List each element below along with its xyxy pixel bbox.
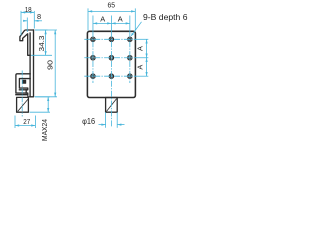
8 dim — [26, 18, 28, 33]
svg-text:MAX24: MAX24 — [40, 119, 49, 141]
centerline through clamp/boss — [21, 71, 23, 117]
right view cyan lines — [84, 8, 148, 127]
hook top — [20, 30, 34, 55]
boss front — [106, 98, 118, 113]
65 — [88, 10, 92, 12]
hole centerlines horizontal — [84, 38, 136, 40]
34.3 arrows — [45, 30, 47, 34]
plate front — [87, 31, 135, 97]
18 dim — [20, 11, 22, 36]
MAX24 arrows — [47, 97, 49, 101]
svg-text:34.3: 34.3 — [37, 36, 46, 52]
svg-text:27: 27 — [23, 117, 30, 126]
right A dims — [146, 39, 148, 76]
right A arrows — [146, 39, 148, 43]
svg-text:65: 65 — [108, 1, 116, 10]
left view dimensions (cyan) — [15, 11, 57, 128]
18 arrows — [21, 11, 25, 13]
phi16 dim — [105, 112, 107, 128]
svg-text:A: A — [100, 14, 105, 23]
leader arrow — [131, 33, 134, 36]
svg-text:8: 8 — [37, 12, 41, 21]
din clamp — [16, 74, 30, 95]
27 arrows — [15, 124, 19, 126]
leader 9-B — [131, 22, 141, 36]
left view dim texts — [23, 5, 54, 141]
holes — [91, 37, 132, 78]
27 dim — [14, 116, 16, 129]
right view arrows — [88, 10, 148, 125]
phi16 arrows outside — [101, 124, 105, 126]
65 dim — [87, 8, 89, 30]
34.3 dim — [35, 29, 48, 31]
90 arrows — [54, 30, 56, 34]
svg-text:90: 90 — [46, 60, 55, 70]
90 dim — [35, 29, 57, 31]
rail piece — [22, 80, 25, 83]
hole centerlines vertical — [92, 16, 94, 32]
svg-text:A: A — [136, 46, 145, 51]
MAX24 dim — [35, 96, 51, 98]
right view texts — [82, 1, 188, 126]
A A dim line — [93, 22, 130, 24]
left view arrows — [15, 11, 56, 126]
svg-text:φ16: φ16 — [82, 117, 96, 126]
svg-text:18: 18 — [25, 5, 32, 14]
svg-text:9-B depth 6: 9-B depth 6 — [143, 12, 188, 22]
svg-text:A: A — [136, 65, 145, 70]
A A arrows — [93, 22, 97, 24]
8 arrows outside — [23, 20, 27, 22]
boss side (bottom square) — [17, 97, 29, 112]
plate side bar — [30, 30, 33, 97]
svg-text:A: A — [118, 14, 123, 23]
